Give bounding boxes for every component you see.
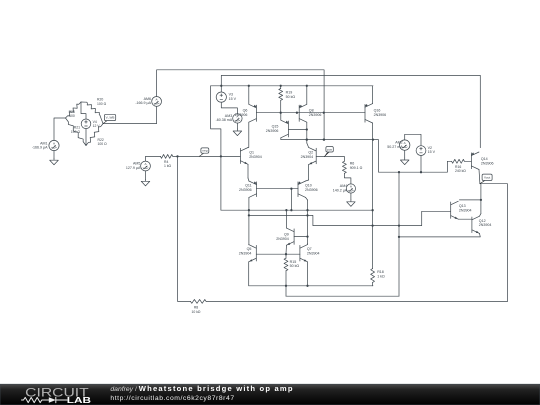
wire Q15 collector down xyxy=(280,138,282,140)
svg-text:2N3906: 2N3906 xyxy=(481,162,494,166)
wire Q16 emitter to rail C end xyxy=(372,86,374,104)
transistor Q7 xyxy=(299,245,301,261)
svg-text:240 kΩ: 240 kΩ xyxy=(455,169,466,173)
svg-text:-166.9 µA: -166.9 µA xyxy=(32,146,48,150)
svg-text:2N3904: 2N3904 xyxy=(276,237,289,241)
ground below AM3 xyxy=(236,129,238,131)
svg-text:Q16: Q16 xyxy=(374,108,381,112)
svg-text:1 kΩ: 1 kΩ xyxy=(377,274,385,278)
wire Q15 base to Q8 collector xyxy=(288,129,306,131)
svg-text:R15: R15 xyxy=(290,260,297,264)
wire Q14 collector to Vout xyxy=(478,170,481,184)
svg-text:Q8: Q8 xyxy=(309,108,314,112)
svg-text:Q5: Q5 xyxy=(247,247,252,251)
logo resistor glyph xyxy=(22,397,49,402)
svg-text:R6: R6 xyxy=(350,161,355,165)
wire Q13 emitter to Q12 base xyxy=(458,218,472,220)
svg-text:R19: R19 xyxy=(286,91,293,95)
wire AM1 bottom xyxy=(53,151,55,159)
wire bridge output to AM6 xyxy=(103,106,157,123)
wire Q6 emitter to rail C xyxy=(248,86,250,105)
wire rail C xyxy=(211,85,373,87)
transistor Q14 xyxy=(470,153,472,169)
resistor R18 xyxy=(372,140,374,211)
svg-text:Q7: Q7 xyxy=(307,247,312,251)
svg-text:127.9 µA: 127.9 µA xyxy=(126,166,141,170)
svg-text:Q9: Q9 xyxy=(284,232,289,236)
svg-text:2N3904: 2N3904 xyxy=(479,223,492,227)
svg-text:-166.9 µA: -166.9 µA xyxy=(135,101,151,105)
wire Vout node right xyxy=(480,184,508,302)
flag neg xyxy=(199,152,205,157)
transistor Q2 xyxy=(315,148,317,164)
svg-text:neg: neg xyxy=(202,149,207,153)
resistor R8 xyxy=(191,299,207,303)
transistor Q9 xyxy=(293,229,295,245)
resistor R23 bridge top-left xyxy=(66,102,82,118)
wire Q8 collector down xyxy=(306,122,308,129)
wire rail A top xyxy=(157,70,325,140)
wire Q16 collector down xyxy=(372,123,374,140)
transistor Q6 xyxy=(255,105,257,121)
resistor R4 xyxy=(161,154,173,158)
svg-text:-60.38 mA: -60.38 mA xyxy=(216,118,233,122)
svg-text:100 Ω: 100 Ω xyxy=(97,102,107,106)
wire Q5 Q7 base rail xyxy=(256,253,300,255)
svg-text:15 V: 15 V xyxy=(428,150,436,154)
svg-text:909.1 Ω: 909.1 Ω xyxy=(350,166,363,170)
node V3 rail C junction xyxy=(220,85,222,87)
transistor Q1 xyxy=(239,148,241,163)
wire Q1 collector to Q6 collector xyxy=(247,147,250,149)
svg-text:2N3906: 2N3906 xyxy=(235,113,248,117)
svg-text:AM5: AM5 xyxy=(133,161,140,165)
svg-text:danfrey / Wheatstone brisdge w: danfrey / Wheatstone brisdge with op amp xyxy=(110,384,293,393)
svg-text:http://circuitlab.com/c6k2cy87: http://circuitlab.com/c6k2cy87r8r47 xyxy=(110,395,234,402)
svg-text:2N3906: 2N3906 xyxy=(309,113,322,117)
wire Q2 collector to comp node xyxy=(307,143,309,147)
ammeter AM4 xyxy=(346,184,355,193)
wire riser base rail to line1 xyxy=(290,189,292,211)
resistor R22 bridge bottom-right xyxy=(86,124,103,146)
svg-text:Q6: Q6 xyxy=(243,108,248,112)
wire Q9 emitter down to mirror bases xyxy=(285,245,288,253)
wire AM2 top to V2 top xyxy=(405,134,421,145)
wire emitter rail xyxy=(249,285,373,287)
wire Vout down to Q13 Q12 collectors xyxy=(480,184,482,214)
ground below AM1 xyxy=(53,158,55,160)
wire Q11 collector down xyxy=(248,197,250,244)
wire Q10 collector down riser xyxy=(306,197,308,200)
svg-text:Q14: Q14 xyxy=(481,157,488,161)
wire Q13 collector link xyxy=(459,199,481,201)
transistor Q5 xyxy=(255,245,257,261)
wire line1 xyxy=(221,209,373,211)
wire Q6 collector down to Q1 collector xyxy=(248,122,250,147)
svg-text:Q1: Q1 xyxy=(249,151,254,155)
transistor Q8 xyxy=(298,105,300,121)
wire Q2 emitter down to Q10 xyxy=(308,165,310,180)
wire Q12 emitter rail xyxy=(399,233,480,237)
wire neg net to Q1 base xyxy=(173,155,241,157)
resistor R15 xyxy=(285,254,287,258)
wire Q11 base rail xyxy=(257,188,299,190)
wire V4 to bridge bottom xyxy=(85,129,87,146)
flag Vout xyxy=(480,179,487,184)
wire AM4 bottom xyxy=(350,193,352,200)
svg-text:2N3906: 2N3906 xyxy=(266,129,279,133)
svg-text:Q15: Q15 xyxy=(272,124,279,128)
wire Q11 emitter from Q1 xyxy=(247,178,250,181)
wire Q2 base pos net xyxy=(316,156,344,158)
svg-text:2N3904: 2N3904 xyxy=(301,155,314,159)
svg-text:15 V: 15 V xyxy=(229,97,237,101)
svg-text:50 kΩ: 50 kΩ xyxy=(286,95,296,99)
svg-text:LAB: LAB xyxy=(67,396,91,405)
wire comp node horizontal xyxy=(281,139,373,141)
wire R15 bottom riser xyxy=(285,286,287,296)
svg-text:2N3904: 2N3904 xyxy=(459,209,472,213)
wire Q7 collector up xyxy=(307,244,309,245)
transistor Q11 xyxy=(256,182,258,197)
wire bottom rail left riser to neg xyxy=(178,156,191,301)
wire AM1 top to bridge left vertex xyxy=(54,118,66,140)
wire AM5 top to R4 xyxy=(146,156,161,161)
resistor R6 xyxy=(343,157,345,162)
ammeter AM2 xyxy=(400,140,410,150)
wire Q9 base xyxy=(294,236,307,238)
svg-text:Q2: Q2 xyxy=(308,151,313,155)
wire mirror base rail xyxy=(256,112,365,114)
resistor R21 bridge bottom-left xyxy=(66,118,87,146)
svg-text:12 V: 12 V xyxy=(93,124,101,128)
wire Q8 emitter to rail C xyxy=(306,86,308,105)
transistor Q16 xyxy=(364,104,366,122)
svg-text:2N3906: 2N3906 xyxy=(305,188,318,192)
svg-text:100: 100 xyxy=(69,114,75,118)
ammeter AM3 xyxy=(233,114,242,123)
flag V_WB xyxy=(103,119,109,123)
wire Q15 emitter from base rail xyxy=(280,113,282,121)
wire Q1 emitter down to Q11 xyxy=(247,164,249,178)
svg-text:Q11: Q11 xyxy=(245,183,252,187)
wire AM3 bottom xyxy=(236,123,238,129)
svg-text:Vout: Vout xyxy=(484,175,490,179)
voltage source V4 xyxy=(81,119,91,129)
wire V2 bottom xyxy=(420,156,422,173)
wire Q5 emitter down xyxy=(248,262,250,286)
svg-text:pos: pos xyxy=(327,147,332,151)
flag pos xyxy=(324,151,330,157)
ground below AM2 xyxy=(404,158,406,160)
svg-text:Q10: Q10 xyxy=(305,183,312,187)
svg-text:AM2: AM2 xyxy=(395,141,402,145)
svg-text:100 Ω: 100 Ω xyxy=(98,142,108,146)
ground below AM4 xyxy=(350,200,352,202)
wire Q5 collector from Q11 xyxy=(248,244,250,246)
wire Q7 emitter down xyxy=(307,262,309,286)
ammeter AM5 xyxy=(141,161,151,171)
wire AM2 bottom xyxy=(404,150,406,158)
svg-text:2N3904: 2N3904 xyxy=(249,155,262,159)
svg-text:V3: V3 xyxy=(229,92,233,96)
voltage source V2 xyxy=(416,146,426,156)
svg-text:100 Ω: 100 Ω xyxy=(71,130,81,134)
wire rail C left drop xyxy=(211,86,221,210)
svg-text:140.2 µA: 140.2 µA xyxy=(333,188,348,192)
svg-text:AM4: AM4 xyxy=(340,184,347,188)
svg-text:2N3904: 2N3904 xyxy=(239,251,252,255)
svg-text:V_WB: V_WB xyxy=(106,116,115,120)
svg-text:1 kΩ: 1 kΩ xyxy=(164,164,172,168)
wire riser x399 xyxy=(398,172,400,296)
wire Q8 collector to comp node xyxy=(306,130,308,144)
svg-text:AM6: AM6 xyxy=(144,97,151,101)
wire bridge top to V4 xyxy=(81,102,86,119)
wire Q10 emitter from Q2 xyxy=(306,180,309,181)
voltage source V3 xyxy=(216,92,226,102)
wire V3 minus to AM3 xyxy=(221,102,237,114)
transistor Q10 xyxy=(297,182,299,197)
resistor R16 xyxy=(452,159,465,163)
resistor R20 bridge top-right xyxy=(81,101,87,103)
svg-text:2N3906: 2N3906 xyxy=(374,113,387,117)
wire line2 xyxy=(249,211,451,225)
svg-text:V2: V2 xyxy=(428,146,432,150)
node rail A bottom xyxy=(323,138,325,140)
wire rail B xyxy=(221,75,480,147)
wire AM5 bottom xyxy=(145,171,147,179)
svg-text:10 kΩ: 10 kΩ xyxy=(192,310,201,314)
wire Y2 feedback stub xyxy=(286,295,399,297)
transistor Q13 xyxy=(450,202,452,218)
ammeter AM6 xyxy=(152,97,162,107)
wire R6 to AM4 xyxy=(344,173,351,184)
svg-text:Q12: Q12 xyxy=(479,219,486,223)
svg-text:50.27 mA: 50.27 mA xyxy=(387,145,403,149)
svg-text:50 kΩ: 50 kΩ xyxy=(290,264,300,268)
logo diode glyph xyxy=(49,397,56,403)
transistor Q12 xyxy=(471,217,473,233)
wire Q9 collector up to line1 xyxy=(285,210,287,228)
ammeter AM1 xyxy=(49,140,59,150)
svg-text:2N3904: 2N3904 xyxy=(307,251,320,255)
footer bar xyxy=(0,384,540,405)
wire comp node to V2 rail xyxy=(373,140,447,173)
ground below AM5 xyxy=(145,179,147,181)
wire bottom rail right xyxy=(206,300,507,302)
transistor Q15 xyxy=(287,121,289,137)
svg-text:R18: R18 xyxy=(377,270,384,274)
resistor R19 xyxy=(280,86,282,89)
svg-text:AM1: AM1 xyxy=(40,141,47,145)
svg-text:AM3: AM3 xyxy=(225,114,232,118)
svg-text:Q13: Q13 xyxy=(459,204,466,208)
svg-text:2N3906: 2N3906 xyxy=(239,188,252,192)
